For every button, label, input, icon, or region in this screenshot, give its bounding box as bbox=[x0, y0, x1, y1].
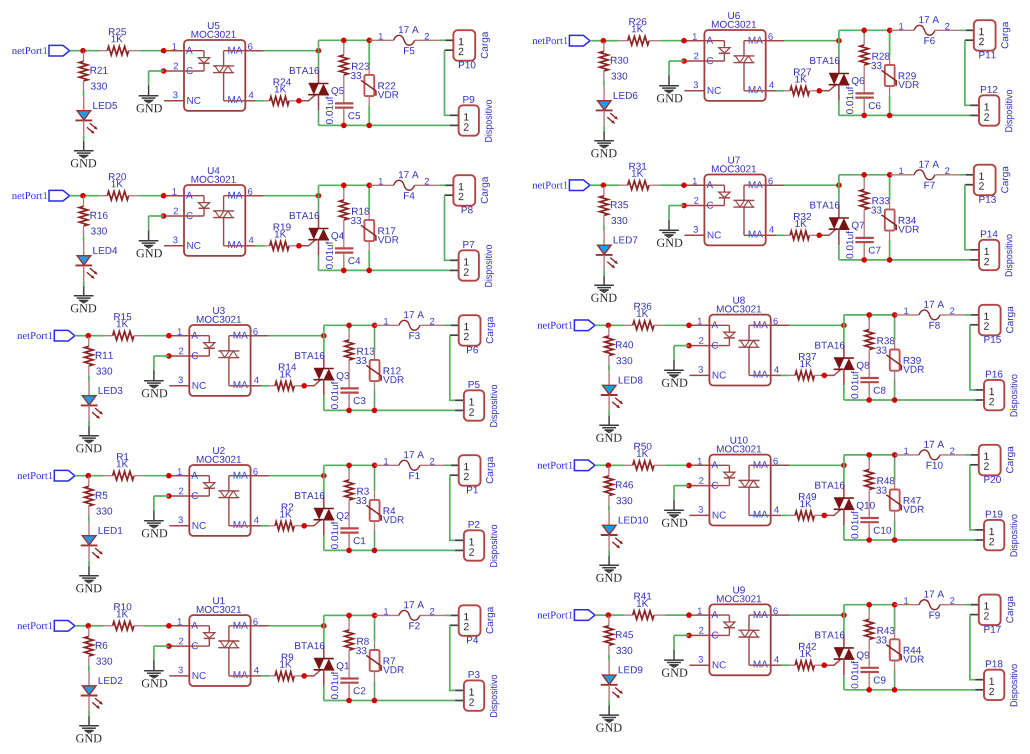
wire top rail bbox=[844, 454, 895, 456]
connector P19 (Dispositivo) bbox=[975, 529, 984, 531]
pin 4 stub bbox=[766, 234, 777, 236]
wire junction to R lead bbox=[88, 625, 104, 627]
wire Carga pin2 to Dispositivo pin1 bbox=[970, 465, 975, 530]
node rail VDR bottom bbox=[892, 537, 898, 543]
net label netPort1 (U6 block) bbox=[532, 37, 567, 44]
wire pin4 to gate resistor bbox=[261, 525, 269, 527]
node rail VDR bottom bbox=[892, 687, 898, 693]
pin 3 stub (NC) bbox=[689, 664, 709, 666]
node rail R snubber bbox=[861, 28, 867, 34]
ground (LED) bbox=[88, 716, 90, 726]
fuse F2 17 A bbox=[375, 614, 399, 616]
node pin6/triac bbox=[316, 48, 322, 54]
wire rail to triac top bbox=[843, 315, 845, 345]
pin 6 stub bbox=[245, 50, 263, 52]
node pin1 bbox=[166, 333, 172, 339]
pin 4 stub bbox=[771, 664, 782, 666]
node gate bbox=[817, 88, 823, 94]
resistor R24 1K (gate) bbox=[264, 100, 270, 102]
resistor R23 33 (snubber) bbox=[343, 40, 345, 45]
pin 4 stub bbox=[771, 514, 782, 516]
wire fuse to connector bbox=[960, 174, 966, 176]
triac Q4 BTA16 bbox=[318, 215, 320, 229]
triac Q5 BTA16 bbox=[318, 70, 320, 84]
node rail VDR top bbox=[372, 463, 378, 469]
resistor R40 330 bbox=[608, 326, 610, 336]
internal LED of optocoupler bbox=[189, 625, 209, 627]
node pin2 bbox=[161, 213, 167, 219]
resistor R5 330 bbox=[88, 477, 90, 487]
wire R to pin1 bbox=[665, 614, 689, 616]
node rail C snubber bbox=[341, 123, 347, 129]
wire Carga pin2 to Dispositivo pin1 bbox=[970, 615, 975, 680]
node rail R snubber bbox=[346, 463, 352, 469]
node rail VDR top bbox=[367, 183, 373, 189]
node: port junction bbox=[606, 463, 612, 469]
capacitor C3 0.01uf bbox=[340, 387, 358, 389]
resistor R36 1K bbox=[624, 324, 633, 326]
pin 6 stub bbox=[771, 464, 789, 466]
wire port to junction bbox=[75, 625, 88, 627]
node pin1 bbox=[166, 473, 172, 479]
wire R to LED bbox=[603, 225, 605, 231]
ground (optocoupler) bbox=[153, 510, 155, 520]
LED LED2 bbox=[88, 671, 90, 686]
wire Carga pin2 to Dispositivo pin1 bbox=[970, 325, 975, 390]
internal LED of optocoupler bbox=[704, 40, 724, 42]
resistor R43 33 (snubber) bbox=[868, 605, 870, 610]
node pin1 bbox=[686, 612, 692, 618]
pin 4 stub bbox=[771, 374, 782, 376]
node pin2 bbox=[681, 203, 687, 209]
net label netPort1 (U8 block) bbox=[537, 322, 572, 329]
resistor R18 33 (snubber) bbox=[343, 185, 345, 190]
fuse F10 17 A bbox=[895, 454, 919, 456]
wire rail to triac top bbox=[318, 185, 320, 215]
optocoupler U4 MOC3021 bbox=[184, 185, 245, 256]
pin 1 stub bbox=[164, 50, 184, 52]
wire R to LED bbox=[88, 516, 90, 522]
wire top rail bbox=[319, 184, 370, 186]
gate wire to triac bbox=[819, 84, 837, 91]
optocoupler U7 MOC3021 bbox=[704, 175, 765, 246]
internal LED of optocoupler bbox=[184, 195, 204, 197]
connector P6 (Carga) bbox=[451, 324, 459, 326]
wire pin2 to ground bbox=[154, 355, 169, 357]
resistor R31 1K bbox=[619, 184, 628, 186]
wire port to junction bbox=[70, 195, 83, 197]
optocoupler U10 MOC3021 bbox=[709, 455, 770, 526]
capacitor C8 0.01uf bbox=[860, 377, 878, 379]
node pin2 bbox=[166, 493, 172, 499]
node pin2 bbox=[166, 643, 172, 649]
node rail VDR top bbox=[887, 172, 893, 178]
ground (LED) bbox=[608, 706, 610, 716]
net label netPort1 (U9 block) bbox=[537, 612, 572, 619]
node: port junction bbox=[86, 333, 92, 339]
wire Carga pin2 to Dispositivo pin1 bbox=[445, 195, 450, 260]
internal triac of optocoupler bbox=[229, 335, 251, 337]
ground (optocoupler) bbox=[668, 220, 670, 230]
LED LED3 bbox=[88, 381, 90, 396]
wire triac bottom bbox=[838, 245, 840, 260]
connector P20 (Carga) bbox=[971, 454, 979, 456]
wire Carga pin2 to Dispositivo pin1 bbox=[450, 335, 455, 400]
node pin2 bbox=[681, 58, 687, 64]
node rail R snubber bbox=[866, 602, 872, 608]
wire port to junction bbox=[590, 184, 603, 186]
triac Q7 BTA16 bbox=[838, 204, 840, 218]
resistor R48 33 (snubber) bbox=[868, 455, 870, 460]
pin 6 stub bbox=[245, 195, 263, 197]
pin 4 stub bbox=[251, 675, 262, 677]
net label netPort1 (U4 block) bbox=[12, 192, 47, 199]
internal triac of optocoupler bbox=[229, 625, 251, 627]
optocoupler U3 MOC3021 bbox=[189, 325, 250, 396]
node pin6/triac bbox=[836, 182, 842, 188]
wire junction to R lead bbox=[83, 50, 99, 52]
connector P4 (Carga) bbox=[451, 614, 459, 616]
internal LED of optocoupler bbox=[704, 184, 724, 186]
node rail R snubber bbox=[866, 312, 872, 318]
connector P3 (Dispositivo) bbox=[455, 689, 464, 691]
node rail R snubber bbox=[346, 323, 352, 329]
pin 6 stub bbox=[766, 40, 784, 42]
node gate bbox=[301, 673, 307, 679]
capacitor C6 0.01uf bbox=[855, 92, 873, 94]
wire top rail bbox=[839, 29, 890, 31]
wire R to pin1 bbox=[145, 335, 169, 337]
wire pin2 to ground bbox=[669, 60, 684, 62]
wire R to LED bbox=[88, 666, 90, 672]
node: port junction bbox=[80, 193, 86, 199]
connector P18 (Dispositivo) bbox=[975, 679, 984, 681]
wire pin2 to ground bbox=[669, 205, 684, 207]
port symbol netPort1 bbox=[574, 610, 595, 621]
ground (optocoupler) bbox=[673, 650, 675, 660]
node gate bbox=[296, 98, 302, 104]
ground (optocoupler) bbox=[668, 75, 670, 85]
capacitor C7 0.01uf bbox=[855, 237, 873, 239]
wire rail to triac top bbox=[323, 325, 325, 355]
wire junction to R lead bbox=[603, 40, 619, 42]
wire triac bottom bbox=[843, 525, 845, 540]
node rail VDR top bbox=[892, 312, 898, 318]
wire Carga pin2 to Dispositivo pin1 bbox=[450, 475, 455, 540]
resistor R21 330 bbox=[83, 52, 85, 62]
wire bottom rail bbox=[319, 269, 450, 271]
ground (optocoupler) bbox=[148, 230, 150, 240]
internal triac of optocoupler bbox=[229, 475, 251, 477]
node rail VDR bottom bbox=[372, 548, 378, 554]
wire junction to R lead bbox=[608, 464, 624, 466]
node rail C snubber bbox=[866, 537, 872, 543]
node: port junction bbox=[601, 182, 607, 188]
optocoupler U9 MOC3021 bbox=[709, 604, 770, 675]
internal triac of optocoupler bbox=[744, 184, 766, 186]
wire Carga pin2 to Dispositivo pin1 bbox=[965, 185, 970, 250]
capacitor C1 0.01uf bbox=[340, 527, 358, 529]
wire triac bottom bbox=[843, 675, 845, 690]
resistor R8 33 (snubber) bbox=[348, 615, 350, 620]
ground (LED) bbox=[608, 416, 610, 426]
wire R to pin1 bbox=[660, 184, 684, 186]
varistor R34 VDR bbox=[889, 175, 891, 200]
resistor R2 1K (gate) bbox=[269, 525, 275, 527]
internal LED of optocoupler bbox=[709, 464, 729, 466]
optocoupler U2 MOC3021 bbox=[189, 465, 250, 536]
wire top rail bbox=[319, 39, 370, 41]
fuse F9 17 A bbox=[895, 604, 919, 606]
internal LED of optocoupler bbox=[189, 335, 209, 337]
node rail VDR bottom bbox=[372, 698, 378, 704]
wire pin6 bbox=[789, 324, 844, 326]
LED LED6 bbox=[603, 86, 605, 101]
wire pin4 to gate resistor bbox=[261, 385, 269, 387]
node gate bbox=[296, 243, 302, 249]
gate wire to triac bbox=[824, 509, 842, 516]
wire bottom rail bbox=[324, 409, 455, 411]
pin 6 stub bbox=[771, 614, 789, 616]
resistor R1 1K bbox=[104, 475, 113, 477]
LED LED4 bbox=[83, 241, 85, 256]
node rail VDR top bbox=[892, 452, 898, 458]
node rail C snubber bbox=[861, 113, 867, 119]
resistor R32 1K (gate) bbox=[784, 234, 790, 236]
port symbol netPort1 bbox=[569, 35, 590, 46]
pin 3 stub (NC) bbox=[164, 100, 184, 102]
capacitor C9 0.01uf bbox=[860, 667, 878, 669]
node gate bbox=[301, 523, 307, 529]
wire junction to R lead bbox=[88, 475, 104, 477]
ground (optocoupler) bbox=[153, 370, 155, 380]
resistor R46 330 bbox=[608, 466, 610, 476]
wire LED to ground bbox=[608, 550, 610, 555]
capacitor C5 0.01uf bbox=[335, 102, 353, 104]
net label netPort1 (U2 block) bbox=[17, 472, 52, 479]
wire junction to R lead bbox=[603, 184, 619, 186]
resistor R15 1K bbox=[104, 335, 113, 337]
node pin6/triac bbox=[321, 473, 327, 479]
node pin6/triac bbox=[321, 623, 327, 629]
node rail R snubber bbox=[861, 172, 867, 178]
pin 2 stub bbox=[169, 355, 189, 357]
node rail C snubber bbox=[346, 548, 352, 554]
node pin1 bbox=[686, 323, 692, 329]
ground (LED) bbox=[83, 286, 85, 296]
port symbol netPort1 bbox=[54, 470, 75, 481]
wire R to pin1 bbox=[665, 464, 689, 466]
pin 1 stub bbox=[684, 40, 704, 42]
wire pin2 to ground bbox=[149, 215, 164, 217]
resistor R45 330 bbox=[608, 616, 610, 626]
gate wire to triac bbox=[819, 228, 837, 235]
wire LED to ground bbox=[608, 700, 610, 705]
node pin6/triac bbox=[841, 612, 847, 618]
gate wire to triac bbox=[824, 369, 842, 376]
node gate bbox=[817, 233, 823, 239]
pin 4 stub bbox=[251, 385, 262, 387]
node pin1 bbox=[161, 48, 167, 54]
wire port to junction bbox=[75, 475, 88, 477]
net label netPort1 (U7 block) bbox=[532, 182, 567, 189]
internal LED of optocoupler bbox=[189, 475, 209, 477]
node rail VDR bottom bbox=[366, 268, 372, 274]
pin 2 stub bbox=[689, 345, 709, 347]
triac Q3 BTA16 bbox=[323, 355, 325, 369]
node gate bbox=[301, 383, 307, 389]
wire pin2 to ground bbox=[674, 634, 689, 636]
node pin2 bbox=[161, 68, 167, 74]
resistor R25 1K bbox=[99, 50, 108, 52]
wire fuse to connector bbox=[445, 614, 451, 616]
pin 1 stub bbox=[169, 475, 189, 477]
pin 6 stub bbox=[771, 324, 789, 326]
varistor R47 VDR bbox=[894, 455, 896, 480]
pin 2 stub bbox=[684, 60, 704, 62]
wire fuse to connector bbox=[445, 324, 451, 326]
triac Q1 BTA16 bbox=[323, 645, 325, 659]
wire LED to ground bbox=[83, 136, 85, 141]
node rail VDR top bbox=[892, 602, 898, 608]
fuse F6 17 A bbox=[890, 29, 914, 31]
fuse F4 17 A bbox=[369, 184, 393, 186]
connector P8 (Carga) bbox=[446, 184, 454, 186]
resistor R33 33 (snubber) bbox=[863, 175, 865, 180]
wire pin6 bbox=[269, 475, 324, 477]
node pin6/triac bbox=[841, 463, 847, 469]
varistor R29 VDR bbox=[889, 30, 891, 55]
connector P16 (Dispositivo) bbox=[975, 389, 984, 391]
pin 2 stub bbox=[684, 205, 704, 207]
LED LED7 bbox=[603, 231, 605, 246]
wire R to LED bbox=[83, 236, 85, 242]
wire pin6 bbox=[789, 464, 844, 466]
wire rail to triac top bbox=[843, 455, 845, 485]
ground (optocoupler) bbox=[153, 660, 155, 670]
wire pin6 bbox=[789, 614, 844, 616]
pin 1 stub bbox=[689, 464, 709, 466]
gate wire to triac bbox=[304, 379, 322, 386]
wire pin6 bbox=[264, 195, 319, 197]
wire R to pin1 bbox=[665, 324, 689, 326]
pin 3 stub (NC) bbox=[169, 525, 189, 527]
wire pin4 to gate resistor bbox=[776, 234, 784, 236]
resistor R10 1K bbox=[104, 625, 113, 627]
wire pin6 bbox=[264, 50, 319, 52]
node rail VDR bottom bbox=[366, 123, 372, 129]
pin 1 stub bbox=[684, 184, 704, 186]
node rail C snubber bbox=[866, 687, 872, 693]
port symbol netPort1 bbox=[574, 460, 595, 471]
wire pin4 to gate resistor bbox=[781, 664, 789, 666]
pin 3 stub (NC) bbox=[684, 90, 704, 92]
optocoupler U1 MOC3021 bbox=[189, 615, 250, 686]
wire bottom rail bbox=[319, 124, 450, 126]
wire port to junction bbox=[595, 614, 608, 616]
wire rail to triac top bbox=[838, 30, 840, 60]
pin 3 stub (NC) bbox=[689, 514, 709, 516]
wire rail to triac top bbox=[318, 40, 320, 70]
wire junction to R lead bbox=[608, 324, 624, 326]
resistor R50 1K bbox=[624, 464, 633, 466]
resistor R28 33 (snubber) bbox=[863, 30, 865, 35]
internal LED of optocoupler bbox=[709, 324, 729, 326]
wire bottom rail bbox=[324, 700, 455, 702]
wire pin6 bbox=[784, 184, 839, 186]
wire pin4 to gate resistor bbox=[261, 675, 269, 677]
gate wire to triac bbox=[304, 669, 322, 676]
wire junction to R lead bbox=[83, 195, 99, 197]
wire pin4 to gate resistor bbox=[256, 245, 264, 247]
fuse F5 17 A bbox=[369, 39, 393, 41]
wire pin6 bbox=[784, 40, 839, 42]
node rail R snubber bbox=[346, 613, 352, 619]
node gate bbox=[822, 662, 828, 668]
LED LED8 bbox=[608, 371, 610, 386]
resistor R9 1K (gate) bbox=[269, 675, 275, 677]
node pin6/triac bbox=[841, 323, 847, 329]
wire R to LED bbox=[608, 505, 610, 511]
resistor R3 33 (snubber) bbox=[348, 465, 350, 470]
net label netPort1 (U1 block) bbox=[17, 622, 52, 629]
node rail R snubber bbox=[341, 38, 347, 44]
wire top rail bbox=[839, 174, 890, 176]
resistor R41 1K bbox=[624, 614, 633, 616]
pin 4 stub bbox=[245, 245, 256, 247]
node pin6/triac bbox=[836, 38, 842, 44]
connector P7 (Dispositivo) bbox=[450, 259, 459, 261]
wire fuse to connector bbox=[965, 314, 971, 316]
wire fuse to connector bbox=[445, 464, 451, 466]
pin 1 stub bbox=[169, 625, 189, 627]
wire fuse to connector bbox=[439, 184, 445, 186]
pin 2 stub bbox=[689, 485, 709, 487]
node rail VDR top bbox=[372, 323, 378, 329]
pin 6 stub bbox=[251, 335, 269, 337]
ground (optocoupler) bbox=[148, 85, 150, 95]
varistor R39 VDR bbox=[894, 315, 896, 340]
LED LED5 bbox=[83, 96, 85, 111]
node rail VDR bottom bbox=[887, 113, 893, 119]
wire pin6 bbox=[269, 335, 324, 337]
port symbol netPort1 bbox=[49, 190, 70, 201]
wire bottom rail bbox=[324, 549, 455, 551]
wire R to pin1 bbox=[660, 40, 684, 42]
wire triac bottom bbox=[318, 256, 320, 271]
node pin6/triac bbox=[321, 333, 327, 339]
connector P1 (Carga) bbox=[451, 464, 459, 466]
wire rail to triac top bbox=[843, 605, 845, 635]
pin 6 stub bbox=[766, 184, 784, 186]
internal LED of optocoupler bbox=[709, 614, 729, 616]
internal triac of optocoupler bbox=[224, 195, 246, 197]
wire Carga pin2 to Dispositivo pin1 bbox=[450, 625, 455, 690]
optocoupler U5 MOC3021 bbox=[184, 40, 245, 111]
connector P9 (Dispositivo) bbox=[450, 114, 459, 116]
resistor R35 330 bbox=[603, 186, 605, 196]
triac Q2 BTA16 bbox=[323, 495, 325, 509]
wire triac bottom bbox=[323, 396, 325, 411]
internal triac of optocoupler bbox=[749, 464, 771, 466]
wire rail to triac top bbox=[323, 465, 325, 495]
wire fuse to connector bbox=[960, 29, 966, 31]
connector P15 (Carga) bbox=[971, 314, 979, 316]
node rail VDR bottom bbox=[892, 397, 898, 403]
pin 1 stub bbox=[689, 324, 709, 326]
node pin2 bbox=[686, 343, 692, 349]
wire R to LED bbox=[88, 376, 90, 382]
